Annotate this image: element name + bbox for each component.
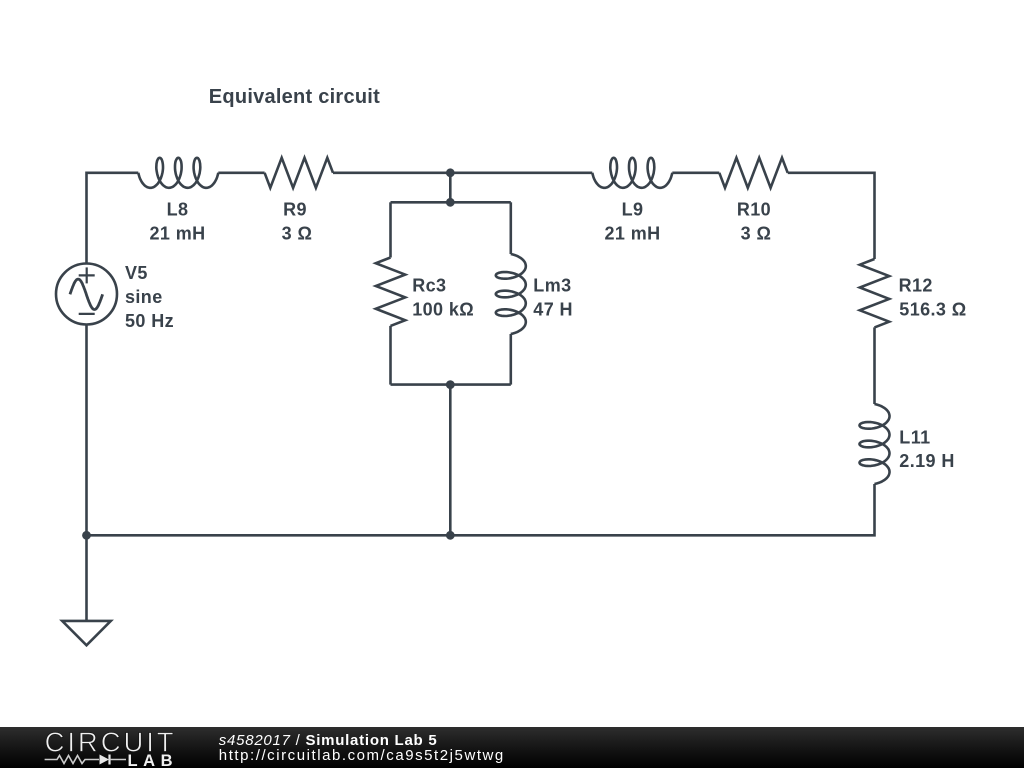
wire <box>450 484 874 535</box>
wire <box>87 534 451 537</box>
footer url text <box>219 747 505 764</box>
svg-text:L9: L9 <box>622 200 644 220</box>
inductor L11 <box>860 404 890 484</box>
label R12 516.3 ohm <box>899 276 967 320</box>
logo diode <box>100 755 127 765</box>
wire <box>449 385 452 536</box>
svg-text:2.19 H: 2.19 H <box>899 451 954 471</box>
ground <box>62 621 111 645</box>
label L8 21 mH <box>149 200 205 244</box>
voltage source V5 <box>56 264 117 325</box>
svg-text:3 Ω: 3 Ω <box>741 224 772 244</box>
svg-text:R9: R9 <box>283 200 307 220</box>
svg-text:R12: R12 <box>899 276 933 296</box>
svg-text:Equivalent circuit: Equivalent circuit <box>209 86 380 108</box>
svg-text:100 kΩ: 100 kΩ <box>412 299 474 319</box>
svg-text:V5: V5 <box>125 263 148 283</box>
svg-text:3 Ω: 3 Ω <box>282 224 313 244</box>
node E <box>82 531 91 540</box>
node D <box>446 531 455 540</box>
svg-text:516.3 Ω: 516.3 Ω <box>899 299 966 319</box>
label V5 sine 50 Hz <box>125 263 174 331</box>
resistor R9 <box>265 158 333 188</box>
svg-text:LAB: LAB <box>128 752 173 768</box>
svg-text:21 mH: 21 mH <box>604 224 660 244</box>
svg-text:Rc3: Rc3 <box>412 276 446 296</box>
svg-text:21 mH: 21 mH <box>149 224 205 244</box>
footer bar <box>0 727 1024 768</box>
resistor R10 <box>719 158 787 188</box>
wire <box>788 173 875 259</box>
svg-text:50 Hz: 50 Hz <box>125 311 174 331</box>
inductor Lm3 <box>496 254 526 334</box>
label Lm3 47 H <box>533 276 573 320</box>
wire <box>389 326 392 385</box>
svg-text:L8: L8 <box>167 200 189 220</box>
wire <box>333 172 450 175</box>
node A <box>446 168 455 177</box>
wire <box>218 172 264 175</box>
wire <box>873 327 876 404</box>
label R9 3 ohm <box>282 200 313 244</box>
svg-text:R10: R10 <box>737 200 771 220</box>
svg-text:sine: sine <box>125 287 163 307</box>
logo word CIRCUIT <box>45 726 174 757</box>
wire <box>85 535 88 621</box>
wire <box>450 172 592 175</box>
wire <box>672 172 719 175</box>
label L9 21 mH <box>604 200 660 244</box>
wire <box>87 173 139 264</box>
wire <box>85 325 88 536</box>
wire <box>509 202 512 254</box>
wire <box>449 173 452 203</box>
node C <box>446 380 455 389</box>
inductor L8 <box>138 158 218 188</box>
label L11 2.19 H <box>899 428 954 472</box>
wire <box>389 202 392 257</box>
label Rc3 100 kOhm <box>412 276 474 320</box>
svg-text:47 H: 47 H <box>533 299 573 319</box>
title Equivalent circuit <box>209 86 380 108</box>
svg-text:L11: L11 <box>899 428 930 448</box>
node B <box>446 198 455 207</box>
svg-text:Lm3: Lm3 <box>533 276 571 296</box>
wire <box>509 334 512 385</box>
label R10 3 ohm <box>737 200 771 244</box>
logo wire and resistor zigzag <box>45 756 99 764</box>
wire <box>391 201 511 204</box>
inductor L9 <box>592 158 672 188</box>
CircuitLab logo doodle (resistor + diode) and wordmark <box>0 728 260 768</box>
resistor Rc3 <box>376 258 405 326</box>
wire <box>391 383 511 386</box>
footer title text <box>219 732 438 749</box>
resistor R12 <box>860 259 889 327</box>
logo word LAB <box>128 752 173 768</box>
